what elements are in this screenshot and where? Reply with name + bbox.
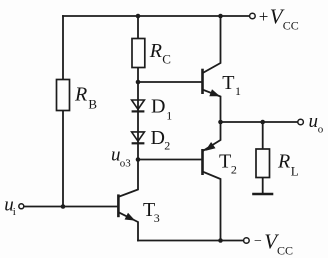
svg-text:−: −	[254, 234, 262, 249]
svg-text:o3: o3	[120, 158, 132, 170]
svg-text:1: 1	[166, 109, 172, 123]
svg-text:u: u	[309, 111, 319, 132]
svg-text:3: 3	[154, 211, 160, 225]
svg-text:T: T	[219, 151, 231, 173]
svg-text:D: D	[151, 96, 165, 118]
svg-text:R: R	[277, 150, 290, 172]
svg-text:B: B	[88, 96, 97, 111]
svg-text:1: 1	[235, 84, 241, 98]
svg-text:R: R	[74, 84, 87, 106]
svg-text:R: R	[149, 40, 162, 62]
svg-text:2: 2	[231, 163, 237, 177]
svg-text:2: 2	[164, 139, 170, 153]
svg-text:i: i	[13, 206, 16, 218]
svg-text:+: +	[259, 7, 269, 26]
svg-text:T: T	[222, 72, 234, 94]
svg-text:CC: CC	[277, 243, 293, 257]
svg-text:D: D	[151, 127, 165, 149]
svg-text:CC: CC	[283, 18, 299, 32]
svg-text:L: L	[291, 163, 299, 178]
svg-text:o: o	[318, 124, 324, 136]
svg-text:C: C	[162, 51, 171, 66]
